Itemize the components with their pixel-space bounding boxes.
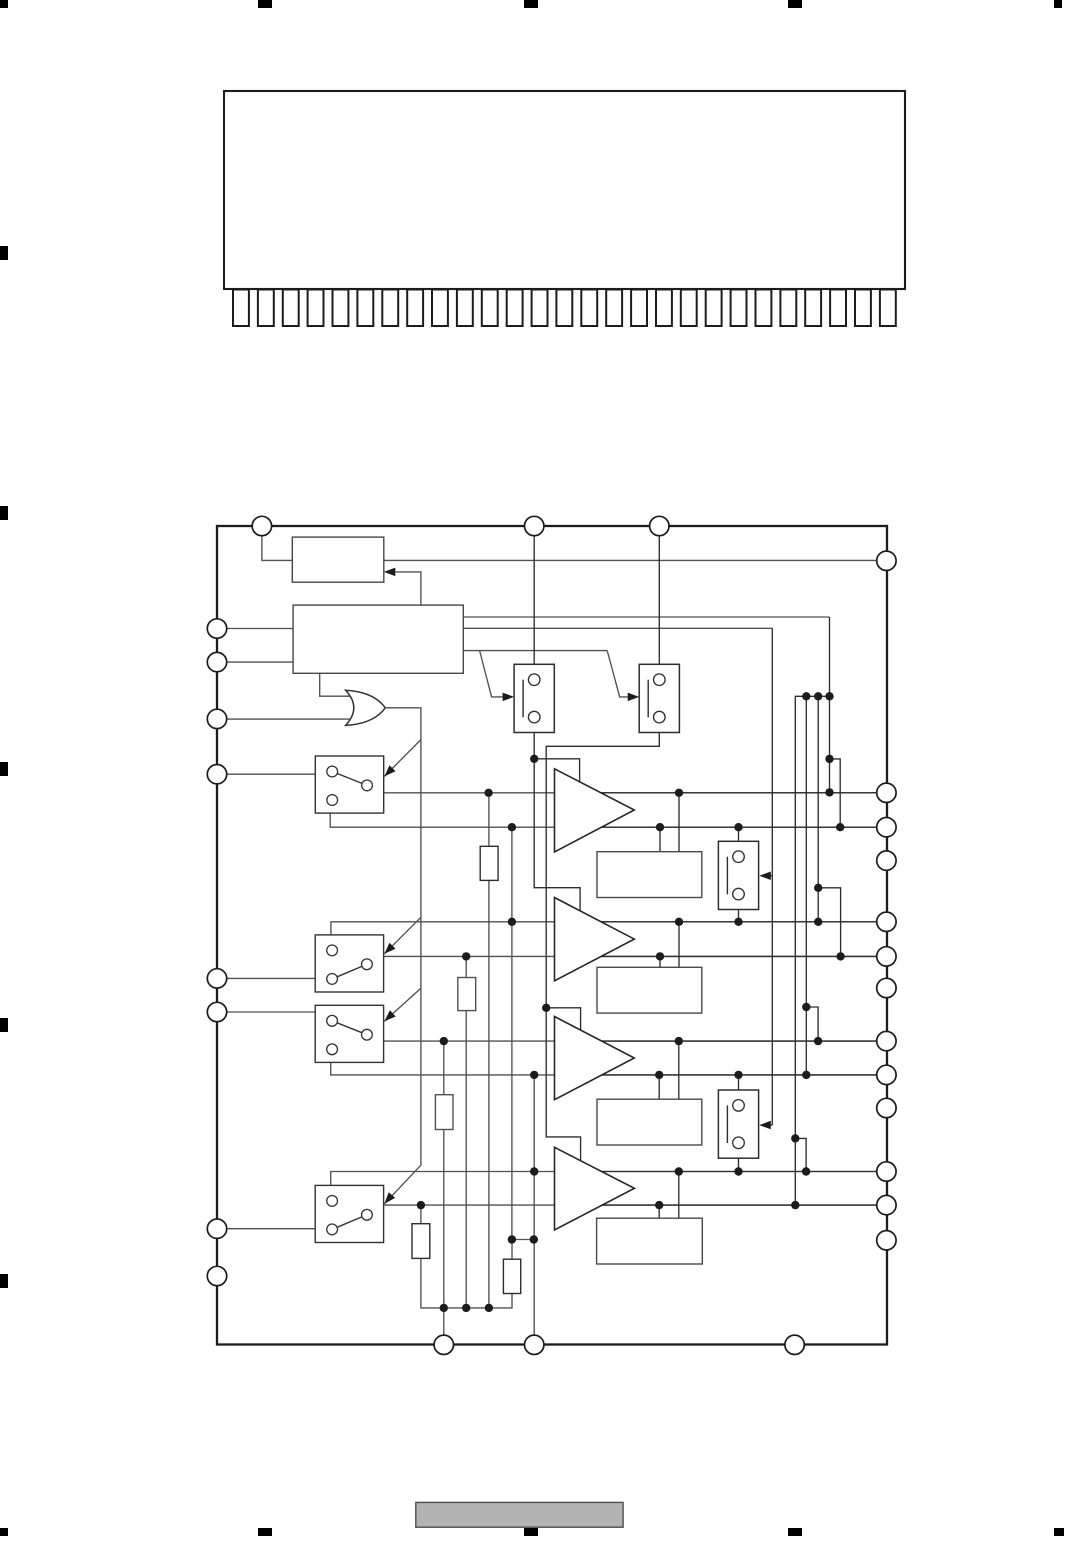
- wire: rail to amp U4 lines: [795, 1138, 806, 1205]
- analog switch Q2 (mute, ch3/4): [639, 664, 679, 732]
- wire: analog switch Q3 taps: [738, 827, 740, 922]
- wire: left terminal 1 to block B2: [227, 628, 293, 630]
- resistor R1: [480, 846, 498, 880]
- wire: common rail with link to bottom terminal: [511, 827, 513, 1239]
- wire: block B2 to block B1 (with arrow): [396, 572, 421, 605]
- feedback block FB3: [597, 1099, 702, 1145]
- wire: top terminal 2 to analog switch Q1: [533, 536, 535, 664]
- arrowheads: [384, 568, 771, 1204]
- wire: terminal VCC to block B1: [262, 536, 292, 561]
- wire: analog switch Q1 to amp U1 and U2 top feed: [534, 733, 580, 912]
- feedback block FB1: [597, 852, 702, 898]
- wire: control rail to analog switches Q3,Q4 (arrows): [763, 628, 772, 1125]
- terminals (IC pins on boundary): [207, 516, 896, 1354]
- wire: switch S1 output to amp U1 (+) input: [384, 792, 878, 794]
- wire: rail to amp U1 lines: [830, 617, 841, 827]
- wire: switch S3 bottom to amp U3 (-) input: [331, 1061, 878, 1075]
- block B1 (regulator): [292, 537, 384, 582]
- wire: feedback block FB2 connections: [660, 922, 679, 968]
- wire: feedback block FB3 connections: [659, 1041, 679, 1099]
- wire: feedback resistor bus: [421, 1258, 512, 1308]
- switch S1 (input selector, ch1): [315, 756, 383, 813]
- wire: block B2 mute line to analog switches Q1,Q2: [463, 650, 607, 652]
- resistor R4: [412, 1224, 430, 1259]
- wire: diagonal with arrow into Q1: [480, 651, 504, 697]
- wire: diagonal with arrow into Q2: [607, 651, 628, 697]
- wire: left terminal 5 to switch S2: [227, 977, 315, 979]
- op-amp U1 (power amp ch1): [555, 769, 635, 852]
- wire: analog switch Q4 taps: [738, 1075, 740, 1172]
- wire: left terminal 3 to OR gate input 2: [227, 718, 350, 720]
- wire: rail to amp U3 lines: [806, 696, 818, 1075]
- wire: left terminal 7 to switch S4: [227, 1228, 315, 1230]
- label box (grayed caption): [416, 1502, 623, 1527]
- resistor R5: [503, 1259, 520, 1293]
- wire: rail to amp U2 lines: [818, 696, 840, 956]
- wire: rail R1 feedback: [488, 793, 490, 847]
- wire: left terminal 6 to switch S3: [227, 1011, 315, 1013]
- wire: rail R2 feedback: [465, 956, 467, 977]
- wire: rail bundle header: [795, 696, 829, 1138]
- switch S2 (input selector, ch2): [315, 935, 383, 992]
- op-amp U2 (power amp ch2): [555, 898, 635, 981]
- wire: top terminal 3 to analog switch Q2: [658, 536, 660, 664]
- wire: left terminal 2 to block B2: [227, 661, 293, 663]
- wire: left terminal 4 to switch S1: [227, 773, 316, 775]
- wire: block B2 to rail bundle: [463, 616, 829, 618]
- op-amp U3 (power amp ch3): [555, 1017, 635, 1100]
- wire: feedback block FB4 connections: [659, 1172, 679, 1219]
- analog switch Q1 (mute, ch1/2): [514, 664, 554, 732]
- feedback block FB4: [597, 1218, 703, 1264]
- resistor R2: [458, 978, 476, 1011]
- junctions (wire dots): [417, 692, 845, 1312]
- op-amp U4 (power amp ch4): [555, 1147, 635, 1230]
- analog switch Q4 (ch4 path): [718, 1090, 758, 1158]
- analog switch Q3 (ch2 path): [718, 841, 758, 909]
- wire: amp output lines (right portions): [601, 793, 878, 1205]
- wire: switch S1 bottom to amp U1 (-) input: [330, 813, 877, 827]
- wire: rail R3 feedback to bottom terminal: [443, 1041, 445, 1095]
- wire: feedback block FB1 connections: [660, 793, 679, 852]
- OR gate G1: [346, 690, 386, 725]
- wire: switch S2 output to amp U2 (-) input: [384, 955, 878, 957]
- block B2 (system control): [293, 605, 463, 673]
- wire: analog switch Q2 to amp U3 and U4 top feed: [546, 733, 659, 1162]
- IC package body: [224, 91, 905, 289]
- IC boundary (block diagram outline): [217, 526, 887, 1345]
- wire: block B2 to switch-control rail: [463, 627, 772, 629]
- wire: switch S4 output to amp U4 (-) input: [384, 1204, 878, 1206]
- feedback block FB2: [597, 967, 702, 1013]
- switch S4 (input selector, ch4): [315, 1185, 383, 1242]
- wire: rail R4 feedback: [420, 1205, 422, 1224]
- wire: OR gate output rail with switch select arrows: [384, 708, 421, 1204]
- resistor R3: [435, 1095, 453, 1130]
- IC pins (27 leads): [233, 290, 896, 327]
- wire: switch S2 top to amp U2 (+) input: [331, 922, 878, 935]
- wire: block B1 output to right terminal: [384, 559, 878, 561]
- wire: switch S4 top to amp U4 (+) input: [331, 1172, 878, 1186]
- switch S3 (input selector, ch3): [315, 1005, 383, 1062]
- wire: block B2 to OR gate input 1: [320, 673, 351, 696]
- wire: switch S3 output to amp U3 (+) input: [384, 1040, 878, 1042]
